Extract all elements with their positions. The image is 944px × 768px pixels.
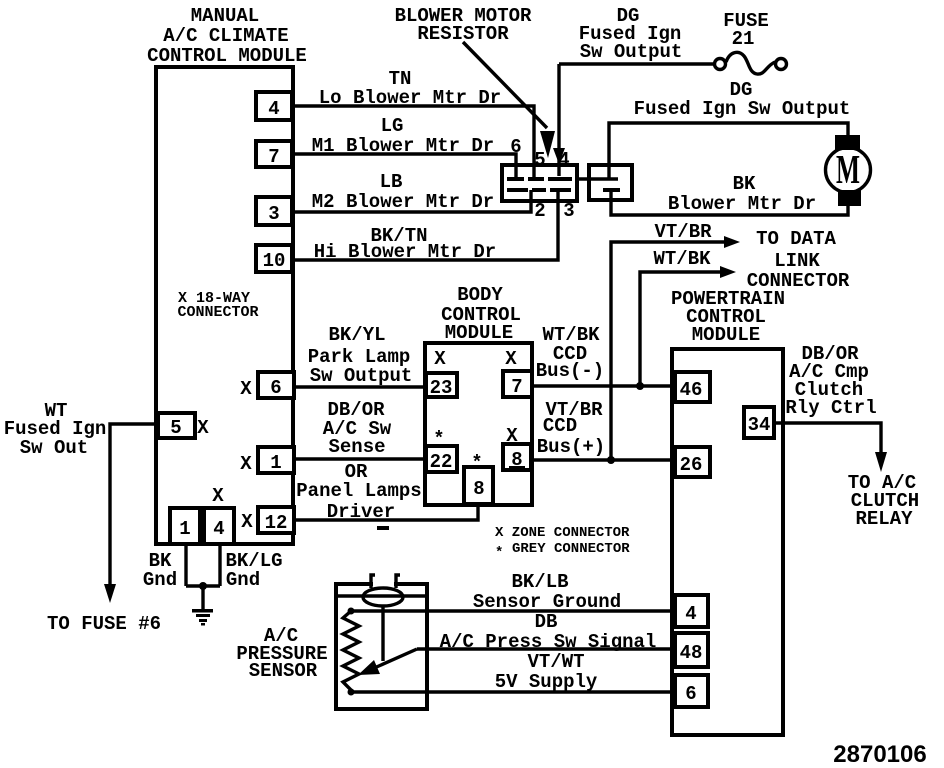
svg-text:BK/LB: BK/LB: [511, 571, 568, 593]
svg-text:LINK: LINK: [774, 250, 820, 272]
svg-text:Bus(-): Bus(-): [536, 360, 604, 382]
svg-text:Gnd: Gnd: [226, 569, 260, 591]
svg-text:6: 6: [510, 136, 521, 158]
svg-text:LB: LB: [380, 171, 403, 193]
svg-text:CCD: CCD: [543, 415, 577, 437]
svg-text:CONTROL MODULE: CONTROL MODULE: [147, 45, 307, 67]
svg-text:Panel Lamps: Panel Lamps: [296, 480, 421, 502]
svg-text:WT/BK: WT/BK: [653, 248, 711, 270]
svg-text:23: 23: [430, 377, 453, 399]
svg-text:Sensor Ground: Sensor Ground: [473, 591, 621, 613]
svg-text:5V Supply: 5V Supply: [495, 671, 598, 693]
svg-text:1: 1: [179, 518, 190, 540]
svg-text:4: 4: [558, 149, 569, 171]
svg-text:X: X: [506, 425, 518, 447]
svg-text:Hi Blower Mtr Dr: Hi Blower Mtr Dr: [314, 241, 496, 263]
svg-text:MODULE: MODULE: [445, 322, 513, 344]
svg-text:7: 7: [268, 146, 279, 168]
svg-text:X: X: [505, 348, 517, 370]
svg-text:BODY: BODY: [457, 284, 503, 306]
svg-text:VT/WT: VT/WT: [527, 651, 584, 673]
svg-text:Fused Ign Sw Output: Fused Ign Sw Output: [634, 98, 851, 120]
svg-text:3: 3: [563, 200, 574, 222]
svg-text:6: 6: [270, 377, 281, 399]
svg-text:TO FUSE #6: TO FUSE #6: [47, 613, 161, 635]
svg-text:X: X: [241, 511, 253, 533]
svg-text:4: 4: [685, 603, 696, 625]
svg-text:*: *: [433, 428, 444, 450]
svg-text:X: X: [240, 378, 252, 400]
svg-text:*: *: [471, 452, 482, 474]
svg-text:21: 21: [732, 28, 755, 50]
svg-text:5: 5: [170, 417, 181, 439]
svg-text:CONNECTOR: CONNECTOR: [177, 304, 258, 321]
svg-text:6: 6: [685, 683, 696, 705]
svg-text:BK: BK: [733, 173, 756, 195]
svg-text:*: *: [495, 545, 503, 561]
svg-text:12: 12: [265, 512, 288, 534]
svg-text:A/C Press Sw Signal: A/C Press Sw Signal: [440, 631, 657, 653]
svg-text:X: X: [212, 485, 224, 507]
svg-text:3: 3: [268, 203, 279, 225]
svg-text:Blower Mtr Dr: Blower Mtr Dr: [668, 193, 816, 215]
svg-text:22: 22: [430, 451, 453, 473]
svg-text:Sw Output: Sw Output: [310, 365, 413, 387]
svg-text:Sw Output: Sw Output: [580, 41, 683, 63]
svg-text:2: 2: [534, 200, 545, 222]
svg-text:Lo Blower Mtr Dr: Lo Blower Mtr Dr: [319, 87, 501, 109]
svg-text:RESISTOR: RESISTOR: [417, 23, 509, 45]
svg-text:X: X: [434, 348, 446, 370]
svg-text:4: 4: [268, 98, 279, 120]
svg-text:TO DATA: TO DATA: [756, 228, 836, 250]
svg-text:5: 5: [534, 149, 545, 171]
svg-text:Bus(+): Bus(+): [537, 436, 605, 458]
svg-text:M: M: [836, 148, 860, 192]
svg-text:Sw Out: Sw Out: [20, 437, 88, 459]
svg-text:M2 Blower Mtr Dr: M2 Blower Mtr Dr: [312, 191, 494, 213]
svg-text:RELAY: RELAY: [855, 508, 913, 530]
svg-text:X: X: [197, 417, 209, 439]
svg-text:2870106: 2870106: [833, 741, 926, 768]
svg-text:A/C CLIMATE: A/C CLIMATE: [163, 25, 288, 47]
svg-text:Gnd: Gnd: [143, 569, 177, 591]
svg-text:Driver: Driver: [327, 501, 395, 523]
svg-text:DB: DB: [535, 611, 558, 633]
svg-text:34: 34: [748, 414, 771, 436]
svg-text:M1 Blower Mtr Dr: M1 Blower Mtr Dr: [312, 135, 494, 157]
svg-text:GREY CONNECTOR: GREY CONNECTOR: [512, 541, 630, 557]
svg-text:7: 7: [511, 376, 522, 398]
svg-text:26: 26: [680, 454, 703, 476]
svg-text:10: 10: [263, 250, 286, 272]
svg-text:Rly Ctrl: Rly Ctrl: [785, 397, 876, 419]
svg-text:8: 8: [473, 478, 484, 500]
svg-text:4: 4: [213, 518, 224, 540]
svg-text:X: X: [240, 453, 252, 475]
svg-text:VT/BR: VT/BR: [654, 221, 712, 243]
svg-text:46: 46: [680, 379, 703, 401]
svg-text:MODULE: MODULE: [692, 324, 760, 346]
svg-text:Sense: Sense: [328, 436, 385, 458]
svg-text:X ZONE CONNECTOR: X ZONE CONNECTOR: [495, 525, 630, 541]
svg-text:LG: LG: [381, 115, 404, 137]
svg-text:1: 1: [270, 452, 281, 474]
svg-text:SENSOR: SENSOR: [249, 660, 318, 682]
svg-text:BK/YL: BK/YL: [328, 324, 385, 346]
svg-text:48: 48: [680, 642, 703, 664]
svg-text:MANUAL: MANUAL: [191, 5, 259, 27]
